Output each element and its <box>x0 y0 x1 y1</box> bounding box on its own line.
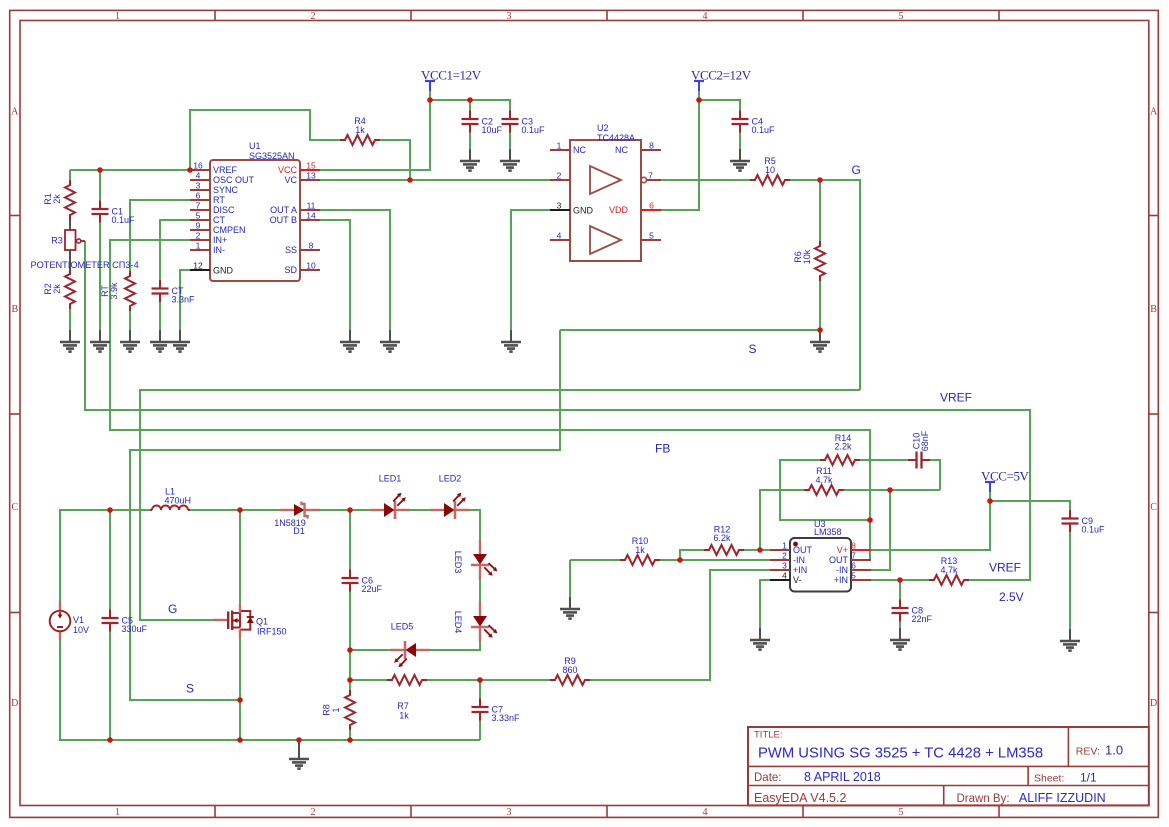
svg-text:4: 4 <box>703 807 708 818</box>
svg-text:Date:: Date: <box>754 772 782 784</box>
svg-text:R7: R7 <box>397 701 409 711</box>
svg-text:1: 1 <box>331 707 341 712</box>
svg-text:-IN: -IN <box>836 565 848 575</box>
svg-text:2: 2 <box>782 551 787 561</box>
svg-text:D: D <box>1150 698 1157 709</box>
svg-text:U2: U2 <box>597 123 609 133</box>
svg-text:D: D <box>11 698 18 709</box>
svg-text:3.3nF: 3.3nF <box>172 295 196 305</box>
svg-text:1: 1 <box>782 541 787 551</box>
svg-text:CMPEN: CMPEN <box>213 225 246 235</box>
svg-text:R3: R3 <box>51 236 63 246</box>
svg-text:10: 10 <box>765 165 775 175</box>
svg-text:ALIFF IZZUDIN: ALIFF IZZUDIN <box>1019 791 1106 805</box>
svg-text:7: 7 <box>648 171 653 181</box>
svg-text:10uF: 10uF <box>482 125 503 135</box>
svg-text:1.0: 1.0 <box>1105 743 1123 758</box>
svg-text:A: A <box>11 107 19 118</box>
svg-text:CT: CT <box>213 215 225 225</box>
svg-text:R8: R8 <box>322 704 332 716</box>
svg-text:V1: V1 <box>73 615 84 625</box>
svg-text:13: 13 <box>306 171 316 181</box>
svg-text:SG3525AN: SG3525AN <box>249 151 295 161</box>
svg-text:15: 15 <box>306 161 316 171</box>
svg-text:POTENTIOMETER СП3-4: POTENTIOMETER СП3-4 <box>31 260 139 270</box>
svg-text:5: 5 <box>649 231 654 241</box>
svg-text:IRF150: IRF150 <box>257 627 287 637</box>
svg-text:1: 1 <box>115 807 120 818</box>
svg-text:1k: 1k <box>399 711 409 721</box>
svg-text:8: 8 <box>649 141 654 151</box>
svg-text:SYNC: SYNC <box>213 185 239 195</box>
svg-text:22uF: 22uF <box>362 584 383 594</box>
svg-text:1: 1 <box>196 241 201 251</box>
svg-text:-IN: -IN <box>793 555 805 565</box>
svg-text:6: 6 <box>851 561 856 571</box>
svg-text:TC4428A: TC4428A <box>597 133 635 143</box>
svg-text:9: 9 <box>196 221 201 231</box>
svg-text:IN+: IN+ <box>213 235 227 245</box>
svg-text:3: 3 <box>507 11 512 22</box>
svg-text:4.7k: 4.7k <box>815 475 833 485</box>
svg-text:SS: SS <box>285 245 297 255</box>
svg-text:LED4: LED4 <box>453 611 463 634</box>
svg-text:A: A <box>1150 107 1158 118</box>
svg-text:V+: V+ <box>837 545 848 555</box>
svg-text:2k: 2k <box>52 284 62 294</box>
svg-text:VCC2=12V: VCC2=12V <box>691 68 752 83</box>
svg-text:G: G <box>168 602 177 616</box>
svg-text:S: S <box>749 342 757 356</box>
svg-text:NC: NC <box>615 145 628 155</box>
svg-text:VC: VC <box>284 175 297 185</box>
svg-text:D1: D1 <box>293 526 305 536</box>
svg-text:0.1uF: 0.1uF <box>1082 525 1106 535</box>
svg-text:330uF: 330uF <box>122 624 148 634</box>
svg-text:REV:: REV: <box>1076 745 1100 757</box>
svg-text:1k: 1k <box>635 545 645 555</box>
svg-text:RT: RT <box>213 195 225 205</box>
svg-text:NC: NC <box>573 145 586 155</box>
svg-text:10: 10 <box>306 261 316 271</box>
svg-text:EasyEDA V4.5.2: EasyEDA V4.5.2 <box>754 791 846 805</box>
svg-text:5: 5 <box>196 211 201 221</box>
svg-text:LED1: LED1 <box>379 474 402 484</box>
svg-text:B: B <box>1150 304 1157 315</box>
svg-text:0.1uF: 0.1uF <box>112 215 136 225</box>
svg-text:TITLE:: TITLE: <box>754 730 783 741</box>
svg-text:VREF: VREF <box>213 165 238 175</box>
svg-text:OUT: OUT <box>793 545 813 555</box>
svg-text:1/1: 1/1 <box>1080 771 1097 785</box>
svg-text:C: C <box>1150 502 1157 513</box>
svg-text:U1: U1 <box>249 141 261 151</box>
svg-text:3: 3 <box>782 561 787 571</box>
svg-text:5: 5 <box>899 807 904 818</box>
svg-text:0.1uF: 0.1uF <box>522 125 546 135</box>
svg-text:0.1uF: 0.1uF <box>752 125 776 135</box>
svg-text:2: 2 <box>557 171 562 181</box>
svg-text:6.2k: 6.2k <box>713 533 731 543</box>
svg-text:LED3: LED3 <box>453 551 463 574</box>
svg-text:VCC=5V: VCC=5V <box>981 469 1030 484</box>
svg-text:3.33nF: 3.33nF <box>492 713 521 723</box>
svg-text:4: 4 <box>557 231 562 241</box>
svg-text:5: 5 <box>851 571 856 581</box>
svg-text:OUT A: OUT A <box>270 205 297 215</box>
svg-text:860: 860 <box>562 665 577 675</box>
svg-text:470uH: 470uH <box>165 496 192 506</box>
svg-text:3: 3 <box>507 807 512 818</box>
svg-text:G: G <box>852 163 861 177</box>
svg-text:2k: 2k <box>52 194 62 204</box>
svg-text:Q1: Q1 <box>256 617 268 627</box>
svg-text:VCC: VCC <box>278 165 298 175</box>
svg-text:1k: 1k <box>355 125 365 135</box>
svg-text:Drawn By:: Drawn By: <box>957 793 1010 805</box>
svg-text:+IN: +IN <box>793 565 807 575</box>
svg-text:Sheet:: Sheet: <box>1034 773 1064 785</box>
svg-text:12: 12 <box>193 261 203 271</box>
svg-text:LM358: LM358 <box>814 527 842 537</box>
svg-text:4: 4 <box>196 171 201 181</box>
svg-text:4: 4 <box>782 571 787 581</box>
svg-text:VREF: VREF <box>940 391 972 405</box>
svg-text:7: 7 <box>851 551 856 561</box>
svg-text:2.2k: 2.2k <box>834 442 852 452</box>
svg-text:7: 7 <box>196 201 201 211</box>
svg-text:LED5: LED5 <box>391 622 414 632</box>
svg-text:B: B <box>11 304 18 315</box>
svg-text:3.9k: 3.9k <box>109 282 119 300</box>
svg-text:2.5V: 2.5V <box>999 590 1024 604</box>
svg-text:14: 14 <box>306 211 316 221</box>
svg-text:VCC1=12V: VCC1=12V <box>421 68 482 83</box>
svg-text:4.7k: 4.7k <box>940 565 958 575</box>
svg-text:6: 6 <box>196 191 201 201</box>
svg-text:2: 2 <box>196 231 201 241</box>
svg-text:V-: V- <box>793 575 802 585</box>
svg-text:6: 6 <box>649 201 654 211</box>
svg-text:OUT: OUT <box>829 555 849 565</box>
svg-text:OUT B: OUT B <box>270 215 297 225</box>
svg-text:FB: FB <box>655 442 670 456</box>
svg-text:3: 3 <box>557 201 562 211</box>
svg-text:GND: GND <box>573 206 594 216</box>
svg-text:C: C <box>11 502 18 513</box>
svg-text:VREF: VREF <box>989 561 1021 575</box>
svg-text:IN-: IN- <box>213 245 225 255</box>
svg-text:VDD: VDD <box>609 205 629 215</box>
svg-text:8: 8 <box>309 241 314 251</box>
svg-text:5: 5 <box>899 11 904 22</box>
svg-text:22nF: 22nF <box>912 614 933 624</box>
svg-text:GND: GND <box>213 266 234 276</box>
svg-text:1: 1 <box>557 141 562 151</box>
svg-text:2: 2 <box>311 807 316 818</box>
svg-text:10V: 10V <box>73 625 89 635</box>
svg-text:8 APRIL 2018: 8 APRIL 2018 <box>804 770 881 784</box>
svg-text:SD: SD <box>284 265 297 275</box>
svg-text:8: 8 <box>851 541 856 551</box>
svg-text:4: 4 <box>703 11 708 22</box>
svg-text:68nF: 68nF <box>920 430 930 451</box>
svg-text:OSC OUT: OSC OUT <box>213 175 255 185</box>
svg-text:11: 11 <box>307 201 316 211</box>
svg-text:DISC: DISC <box>213 205 235 215</box>
svg-text:LED2: LED2 <box>439 474 462 484</box>
svg-text:3: 3 <box>196 181 201 191</box>
svg-text:16: 16 <box>193 161 203 171</box>
svg-text:PWM USING SG 3525 + TC 4428 +: PWM USING SG 3525 + TC 4428 + LM358 <box>758 746 1043 762</box>
svg-text:+IN: +IN <box>834 575 848 585</box>
svg-text:S: S <box>186 682 194 696</box>
svg-text:2: 2 <box>311 11 316 22</box>
svg-text:1: 1 <box>115 11 120 22</box>
svg-text:10k: 10k <box>802 249 812 264</box>
